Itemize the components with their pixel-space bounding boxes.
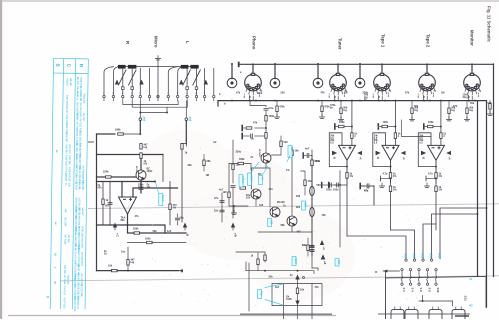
svg-text:47n: 47n <box>364 190 369 193</box>
output arrow <box>179 269 183 272</box>
box right <box>485 276 487 307</box>
part label <box>292 257 297 266</box>
resistor input divider <box>340 108 342 114</box>
svg-text:100k: 100k <box>383 121 389 124</box>
wire <box>162 155 164 182</box>
svg-text:-B: -B <box>185 233 189 236</box>
wire <box>311 196 313 208</box>
svg-text:log: log <box>131 261 135 264</box>
junction <box>231 63 233 65</box>
potentiometer <box>310 186 315 195</box>
ground <box>409 117 414 121</box>
wire <box>232 227 234 230</box>
wire <box>311 252 313 256</box>
svg-text:10u 220k: 10u 220k <box>64 217 67 227</box>
terminal bar <box>359 184 361 189</box>
wire opamp out <box>346 160 348 172</box>
resistor feedback <box>134 232 140 234</box>
switch terminal <box>103 95 105 97</box>
part label <box>302 201 307 210</box>
svg-text:330k: 330k <box>239 158 245 161</box>
junction <box>422 300 424 302</box>
wire <box>489 109 491 113</box>
wire <box>323 184 329 186</box>
svg-text:47n: 47n <box>214 197 219 200</box>
transistor T5 <box>287 216 297 226</box>
svg-text:100k: 100k <box>269 115 275 118</box>
switch S11 contact <box>391 310 404 319</box>
svg-text:1: 1 <box>139 93 140 95</box>
svg-text:Fig. 11 Schematic: Fig. 11 Schematic <box>487 6 492 43</box>
svg-text:+A: +A <box>402 157 405 160</box>
wire <box>394 138 396 145</box>
junction <box>426 63 428 65</box>
svg-text:1n: 1n <box>251 138 254 141</box>
svg-text:10u 2n2: 10u 2n2 <box>82 113 85 122</box>
junction <box>231 100 233 102</box>
junction <box>435 178 437 180</box>
svg-text:10k: 10k <box>108 265 113 268</box>
wire <box>390 178 392 183</box>
wire <box>310 155 313 157</box>
cyan leader line <box>251 162 260 173</box>
resistor <box>311 160 313 166</box>
svg-text:16V: 16V <box>246 196 251 199</box>
svg-text:4k7 R116: 4k7 R116 <box>63 235 66 245</box>
wire to preamp R <box>139 121 141 135</box>
svg-text:2.2u: 2.2u <box>301 170 306 173</box>
wire jack stub <box>381 64 383 74</box>
svg-text:100k: 100k <box>339 121 345 124</box>
DIN jack Tuner <box>330 73 347 94</box>
resistor <box>304 180 306 186</box>
wire <box>250 164 252 171</box>
supply arrow <box>357 151 362 155</box>
junction <box>297 270 299 272</box>
svg-text:220: 220 <box>281 92 286 95</box>
wire <box>196 98 198 101</box>
wire <box>140 158 142 170</box>
DIN jack Tape 2 <box>419 73 436 94</box>
cyan leader line <box>287 156 290 163</box>
wire DIN pins down <box>334 95 338 101</box>
wire <box>311 150 313 268</box>
wire feedback loop U2 <box>329 133 347 167</box>
wire to preamp L <box>185 121 187 141</box>
wire <box>203 155 205 172</box>
supply arrow <box>422 151 427 155</box>
bus end tick <box>238 63 240 67</box>
page left edge <box>0 0 2 319</box>
svg-text:R116: R116 <box>64 176 67 182</box>
wire opamp out <box>390 160 392 172</box>
svg-text:5k6: 5k6 <box>284 141 289 144</box>
switch contact <box>195 87 198 90</box>
junction <box>477 213 479 215</box>
capacitor input <box>264 109 268 111</box>
wire to S2 <box>347 236 406 259</box>
switch contact bar <box>128 65 137 69</box>
wire <box>255 199 257 206</box>
switch pole <box>426 268 428 270</box>
resistor <box>140 153 142 159</box>
svg-text:47u: 47u <box>269 188 274 191</box>
svg-text:6: 6 <box>196 93 197 95</box>
wire jack stub <box>252 64 254 74</box>
wire feedback <box>258 226 312 232</box>
switch contact spring <box>435 271 437 283</box>
switch pole <box>418 283 420 285</box>
wire switch rail <box>118 66 199 68</box>
switch terminal <box>203 95 205 97</box>
wire <box>265 121 267 133</box>
wire <box>196 68 198 86</box>
switch contact <box>131 87 134 90</box>
wire feedback <box>128 225 187 233</box>
switch pole <box>409 268 411 270</box>
resistor <box>296 288 298 294</box>
junction <box>390 178 392 180</box>
wire <box>280 136 282 141</box>
svg-text:R116 1u: R116 1u <box>66 78 69 87</box>
wire DIN pins down <box>378 95 382 101</box>
svg-text:L: L <box>185 41 190 44</box>
wire <box>245 262 247 271</box>
svg-text:log: log <box>343 109 347 112</box>
svg-text:4k7 39k: 4k7 39k <box>75 112 78 121</box>
svg-text:1: 1 <box>204 93 205 95</box>
wire <box>307 238 309 256</box>
RCA jack <box>227 78 237 88</box>
capacitor C11 <box>220 201 224 203</box>
junction <box>351 126 353 128</box>
wire <box>204 68 206 95</box>
wire <box>186 89 188 95</box>
table column line <box>85 59 88 309</box>
resistor shunt <box>276 106 278 112</box>
wire <box>276 112 278 116</box>
capacitor <box>367 184 369 188</box>
capacitor <box>175 218 179 220</box>
resistor <box>351 133 353 139</box>
switch arrow <box>204 80 208 85</box>
svg-text:330: 330 <box>296 195 301 198</box>
terminal bar <box>425 176 427 181</box>
wire top shield bus <box>239 63 494 65</box>
part label <box>288 146 293 158</box>
wire <box>157 59 159 67</box>
wire <box>139 68 141 95</box>
terminal bar <box>302 153 304 158</box>
switch S11 contact pins <box>409 307 414 310</box>
svg-text:-B: -B <box>376 157 379 160</box>
wire <box>102 182 104 226</box>
svg-text:10k: 10k <box>300 289 305 292</box>
wire DIN pins down <box>249 95 253 101</box>
svg-text:R101 330: R101 330 <box>65 132 68 142</box>
svg-text:68k 1u: 68k 1u <box>76 94 79 101</box>
cyan leader line <box>156 183 159 194</box>
table column line <box>60 59 63 309</box>
svg-text:10u: 10u <box>121 251 126 254</box>
transistor T2 <box>261 153 271 163</box>
wire switch outer <box>178 67 182 95</box>
svg-text:2.2u: 2.2u <box>269 107 274 110</box>
resistor <box>291 150 293 156</box>
capacitor <box>307 153 309 157</box>
wire <box>122 89 124 95</box>
wire <box>232 189 234 219</box>
svg-text:Micro: Micro <box>154 36 159 48</box>
svg-text:4u7: 4u7 <box>275 286 280 289</box>
wire <box>373 186 375 205</box>
resistor <box>238 162 244 164</box>
capacitor <box>310 246 314 248</box>
junction <box>139 133 141 135</box>
wire <box>340 101 342 108</box>
svg-text:47k: 47k <box>236 92 241 95</box>
fold line 2 <box>60 276 499 281</box>
terminal bar <box>241 134 243 139</box>
wire <box>131 98 133 101</box>
switch pole <box>405 259 407 261</box>
wire <box>378 126 382 128</box>
wire base <box>97 176 137 178</box>
supply arrow <box>183 223 187 228</box>
svg-text:1k5: 1k5 <box>223 191 228 194</box>
resistor <box>307 245 309 251</box>
svg-text:TCA4: TCA4 <box>161 195 164 202</box>
wire <box>177 214 179 225</box>
wire <box>311 166 313 187</box>
svg-text:4n7: 4n7 <box>219 189 224 192</box>
junction <box>471 63 473 65</box>
svg-text:47n: 47n <box>135 215 140 218</box>
page bottom edge <box>378 313 470 315</box>
resistor output <box>112 269 118 271</box>
svg-text:10k: 10k <box>295 150 300 153</box>
wire right rail C <box>477 101 479 276</box>
switch contact <box>186 87 189 90</box>
wire <box>186 68 188 86</box>
supply arrow <box>446 151 451 155</box>
svg-text:1M: 1M <box>206 174 209 177</box>
supply arrow <box>321 255 325 260</box>
junction <box>339 184 341 186</box>
svg-text:R107 8k2: R107 8k2 <box>65 144 68 154</box>
wire <box>112 98 114 101</box>
svg-text:2n2 R107: 2n2 R107 <box>68 144 71 154</box>
junction <box>166 112 168 114</box>
wire <box>213 98 215 101</box>
input tick <box>89 141 94 143</box>
svg-text:Monitor: Monitor <box>470 30 475 46</box>
wire <box>361 185 374 187</box>
wire <box>139 98 141 101</box>
wire <box>411 114 413 119</box>
junction <box>252 63 254 65</box>
svg-text:5: 5 <box>113 93 114 95</box>
junction <box>429 100 431 102</box>
wire <box>266 168 271 210</box>
wire opamp out <box>435 160 437 172</box>
svg-text:470k: 470k <box>279 106 285 109</box>
resistor <box>246 127 252 129</box>
switch contact <box>122 87 125 90</box>
switch pole <box>401 268 403 270</box>
wire opamp inputs <box>122 182 178 198</box>
wire <box>177 98 179 101</box>
table row line <box>53 57 88 59</box>
svg-text:4.7u: 4.7u <box>428 173 433 176</box>
switch arrow <box>179 80 183 85</box>
wire <box>131 68 133 86</box>
svg-text:AC151: AC151 <box>241 176 244 184</box>
resistor <box>265 115 267 121</box>
switch pole <box>430 259 432 261</box>
svg-text:220: 220 <box>311 245 316 248</box>
svg-text:50k: 50k <box>470 102 475 105</box>
svg-text:S: S <box>55 64 60 67</box>
capacitor C12 <box>220 210 224 212</box>
junction <box>474 100 476 102</box>
switch terminal <box>213 95 215 97</box>
svg-text:BC149: BC149 <box>135 166 138 173</box>
wire to S4 <box>391 230 415 259</box>
wire <box>252 163 267 189</box>
resistor monitor load <box>489 104 491 110</box>
svg-text:33k: 33k <box>188 164 193 167</box>
switch pole <box>418 268 420 270</box>
resistor <box>265 133 267 139</box>
junction <box>351 100 353 102</box>
switch pole <box>435 283 437 285</box>
resistor <box>228 192 230 198</box>
svg-text:180k: 180k <box>115 129 121 132</box>
svg-text:Tape 2: Tape 2 <box>426 34 431 48</box>
part label AC151 <box>239 175 244 188</box>
wire <box>304 172 306 195</box>
wire <box>149 68 151 95</box>
resistor <box>394 133 396 139</box>
capacitor <box>251 134 253 138</box>
junction <box>264 270 266 272</box>
svg-text:1k8: 1k8 <box>259 204 264 207</box>
wire opamp out <box>127 214 129 225</box>
wire <box>435 183 437 186</box>
wire <box>204 98 206 101</box>
part label 15V <box>335 259 340 267</box>
junction <box>359 63 361 65</box>
transistor T1 <box>136 170 146 180</box>
svg-text:2: 2 <box>186 93 187 95</box>
wire <box>440 138 442 145</box>
wire bottom bus <box>246 271 314 274</box>
wire <box>272 147 282 155</box>
junction <box>127 224 129 226</box>
wire <box>334 171 340 185</box>
wire <box>433 126 441 128</box>
svg-text:4148: 4148 <box>286 298 292 301</box>
switch pole <box>413 259 415 261</box>
wire <box>233 206 235 212</box>
wire switch outer <box>104 67 114 96</box>
wire <box>182 144 186 223</box>
bridge frame <box>272 305 322 307</box>
wire opamp top rail <box>97 181 156 183</box>
switch S11 contact <box>429 310 442 319</box>
ground <box>487 111 492 115</box>
svg-text:log: log <box>451 109 455 112</box>
resistor <box>435 186 437 192</box>
capacitor <box>108 203 112 205</box>
cyan wire <box>265 284 284 288</box>
box top <box>386 276 487 278</box>
svg-text:100k: 100k <box>428 121 434 124</box>
wire <box>311 155 313 160</box>
svg-text:Phono: Phono <box>252 36 257 50</box>
wire <box>466 114 468 119</box>
svg-text:S 8: S 8 <box>428 288 432 293</box>
svg-text:47k: 47k <box>315 286 320 289</box>
resistor input divider <box>411 108 413 114</box>
svg-text:P5C: P5C <box>260 291 263 296</box>
svg-text:56k 68k: 56k 68k <box>79 94 82 103</box>
op-amp U2 <box>339 145 356 160</box>
svg-text:47k: 47k <box>453 105 458 108</box>
svg-text:220k: 220k <box>315 160 321 163</box>
svg-text:MB1: MB1 <box>304 202 307 208</box>
wire <box>229 164 248 207</box>
wire <box>390 192 392 230</box>
op-amp A1 <box>119 197 137 214</box>
svg-text:100k: 100k <box>145 238 151 241</box>
svg-text:10u: 10u <box>105 205 110 208</box>
part label AJ <box>259 176 264 185</box>
terminal bar <box>321 183 323 188</box>
junction <box>274 63 276 65</box>
switch arrow <box>139 80 143 85</box>
ground <box>446 117 451 121</box>
wire feedback 2 <box>128 242 187 244</box>
switch contact bar <box>118 65 126 69</box>
svg-text:8k2 2n2: 8k2 2n2 <box>76 77 79 86</box>
svg-text:10u 560: 10u 560 <box>81 182 84 191</box>
svg-text:log: log <box>464 96 468 99</box>
resistor <box>264 255 266 261</box>
svg-text:R122 4k7: R122 4k7 <box>65 104 68 114</box>
switch arrow <box>115 80 119 85</box>
svg-text:4k7 8k2: 4k7 8k2 <box>74 243 77 251</box>
svg-text:6: 6 <box>131 93 132 95</box>
switch terminal <box>186 95 188 97</box>
RCA jack <box>355 78 365 88</box>
wire <box>344 126 352 128</box>
wire <box>466 101 468 108</box>
wire jack stub <box>471 64 473 74</box>
terminal bar <box>359 184 361 189</box>
svg-text:4k7 560: 4k7 560 <box>67 235 70 244</box>
parts-list table <box>50 58 88 312</box>
op-amp U4 <box>428 145 445 160</box>
switch contact spring <box>427 271 429 283</box>
svg-text:R119: R119 <box>68 176 71 182</box>
svg-text:BC149C: BC149C <box>258 149 261 157</box>
switch lever <box>183 70 191 85</box>
wire lower shield bus <box>218 100 486 102</box>
capacitor <box>367 184 369 188</box>
junction <box>274 100 276 102</box>
